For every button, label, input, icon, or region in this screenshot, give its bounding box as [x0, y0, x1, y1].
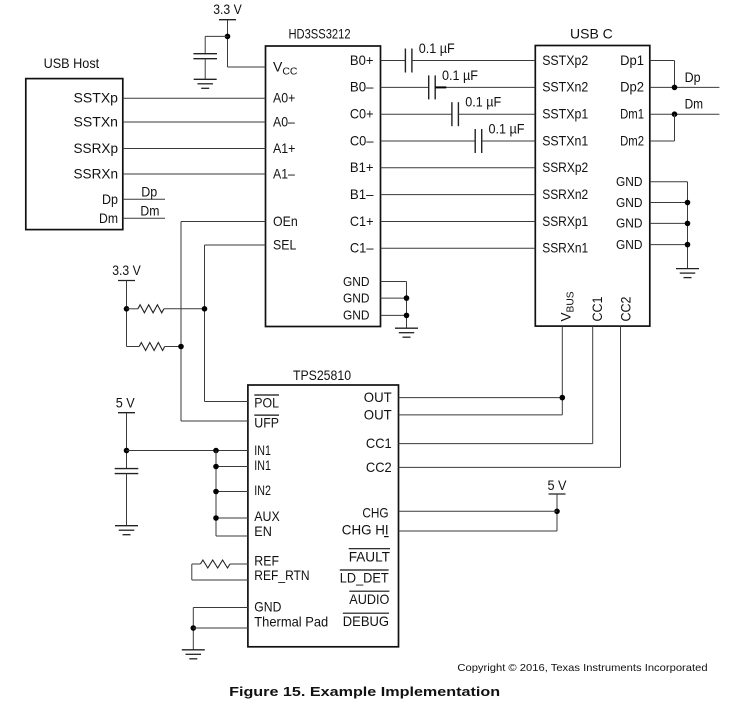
svg-text:3.3 V: 3.3 V [112, 262, 141, 278]
svg-text:USB C: USB C [570, 26, 613, 42]
svg-text:GND: GND [254, 599, 281, 615]
svg-text:SSTXp: SSTXp [74, 90, 119, 106]
svg-text:C1+: C1+ [350, 213, 374, 229]
svg-text:CC1: CC1 [589, 296, 605, 321]
svg-text:Dp2: Dp2 [620, 79, 644, 95]
svg-text:SSTXn1: SSTXn1 [542, 132, 588, 148]
svg-text:SSTXp2: SSTXp2 [542, 52, 588, 68]
svg-text:OUT: OUT [364, 406, 392, 422]
svg-text:SSRXn1: SSRXn1 [542, 240, 588, 256]
svg-text:DEBUG: DEBUG [343, 613, 389, 629]
svg-text:Dp1: Dp1 [620, 52, 644, 68]
svg-text:POL: POL [254, 395, 279, 411]
svg-text:5 V: 5 V [116, 395, 136, 411]
svg-text:0.1 µF: 0.1 µF [419, 40, 455, 56]
svg-text:REF_RTN: REF_RTN [254, 567, 309, 583]
svg-text:Dm2: Dm2 [620, 132, 644, 148]
svg-text:0.1 µF: 0.1 µF [465, 94, 501, 110]
svg-text:SSRXp1: SSRXp1 [542, 213, 588, 229]
svg-text:GND: GND [343, 274, 370, 289]
svg-text:GND: GND [616, 237, 643, 252]
svg-text:GND: GND [343, 290, 370, 305]
svg-text:OEn: OEn [273, 213, 298, 229]
svg-text:0.1 µF: 0.1 µF [442, 67, 478, 83]
svg-text:5 V: 5 V [548, 477, 568, 493]
svg-text:SSTXp1: SSTXp1 [542, 106, 588, 122]
svg-text:GND: GND [616, 195, 643, 210]
svg-text:B1+: B1+ [350, 159, 374, 175]
svg-text:CHG HI: CHG HI [342, 521, 389, 537]
svg-text:B1–: B1– [350, 186, 374, 202]
svg-text:FAULT: FAULT [349, 548, 391, 564]
svg-text:Figure 15. Example Implementa: Figure 15. Example Implementation [229, 684, 500, 699]
svg-text:CC2: CC2 [366, 459, 392, 475]
svg-text:AUDIO: AUDIO [349, 591, 389, 607]
svg-text:Dm: Dm [99, 210, 118, 226]
svg-text:GND: GND [616, 216, 643, 231]
svg-text:SSRXp: SSRXp [74, 140, 119, 156]
svg-text:Dm: Dm [685, 96, 704, 112]
svg-text:SEL: SEL [273, 236, 296, 252]
svg-text:Dp: Dp [102, 191, 118, 207]
svg-text:CC1: CC1 [366, 435, 392, 451]
svg-text:UFP: UFP [254, 415, 279, 431]
svg-text:USB Host: USB Host [44, 55, 100, 71]
svg-text:SSRXp2: SSRXp2 [542, 159, 588, 175]
svg-text:A0+: A0+ [273, 90, 295, 106]
svg-text:A1–: A1– [273, 165, 295, 181]
svg-text:IN1: IN1 [254, 442, 271, 458]
svg-text:Copyright © 2016, Texas Instru: Copyright © 2016, Texas Instruments Inco… [457, 662, 707, 674]
svg-text:TPS25810: TPS25810 [293, 367, 351, 383]
svg-text:OUT: OUT [364, 389, 392, 405]
svg-text:IN2: IN2 [254, 482, 271, 498]
svg-text:HD3SS3212: HD3SS3212 [288, 26, 350, 42]
svg-text:B0+: B0+ [350, 52, 374, 68]
svg-text:AUX: AUX [254, 508, 280, 524]
svg-text:SSTXn: SSTXn [74, 113, 119, 129]
svg-text:Dp: Dp [141, 183, 157, 199]
svg-text:Dm1: Dm1 [620, 106, 644, 122]
svg-text:0.1 µF: 0.1 µF [489, 121, 525, 137]
svg-text:Thermal Pad: Thermal Pad [254, 614, 328, 630]
svg-text:A0–: A0– [273, 113, 295, 129]
svg-text:3.3 V: 3.3 V [213, 1, 242, 17]
svg-text:SSTXn2: SSTXn2 [542, 79, 588, 95]
svg-text:CHG: CHG [362, 504, 388, 520]
svg-text:Dp: Dp [685, 69, 701, 85]
svg-text:REF: REF [254, 552, 279, 568]
svg-text:GND: GND [343, 308, 370, 323]
svg-text:C1–: C1– [350, 240, 374, 256]
svg-text:SSRXn2: SSRXn2 [542, 186, 588, 202]
svg-text:Dm: Dm [140, 202, 159, 218]
svg-text:LD_DET: LD_DET [340, 570, 389, 586]
svg-text:A1+: A1+ [273, 140, 295, 156]
svg-text:B0–: B0– [350, 79, 374, 95]
svg-text:C0–: C0– [350, 132, 374, 148]
svg-text:SSRXn: SSRXn [74, 165, 119, 181]
svg-text:C0+: C0+ [350, 106, 374, 122]
svg-text:GND: GND [616, 174, 643, 189]
svg-text:CC2: CC2 [618, 296, 634, 321]
svg-text:EN: EN [254, 523, 272, 539]
svg-text:IN1: IN1 [254, 457, 271, 473]
